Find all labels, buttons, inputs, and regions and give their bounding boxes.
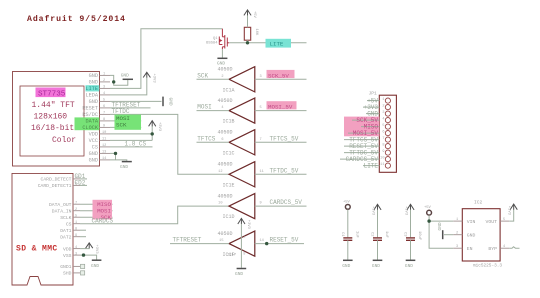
svg-text:VOUT: VOUT (485, 219, 497, 225)
svg-text:GND: GND (91, 263, 99, 269)
svg-text:10: 10 (102, 131, 106, 135)
highlight ST7735 (36, 88, 66, 98)
supply +3V3 arrow (VOUT) (510, 204, 517, 210)
wire pin3 LITE to Q1 (110, 29, 222, 89)
svg-text:CARDCS_5V: CARDCS_5V (270, 199, 303, 206)
IC2 pin names (467, 219, 497, 252)
svg-text:+5V: +5V (252, 11, 256, 19)
svg-text:5: 5 (260, 106, 262, 110)
svg-text:SHD: SHD (63, 271, 72, 277)
highlight SCK_5V (267, 70, 295, 78)
svg-text:DAT1: DAT1 (60, 228, 71, 234)
svg-text:2: 2 (75, 208, 77, 212)
supply +3V3 arrow (LEDA) (143, 72, 150, 77)
wire pin7 TFTDC to IC1E (110, 114, 229, 174)
capacitor C2 (373, 238, 382, 240)
wire SCLK / SCK (80, 216, 113, 218)
svg-text:1: 1 (382, 98, 384, 102)
svg-text:mic5225-3.3: mic5225-3.3 (473, 263, 502, 268)
svg-text:4050D: 4050D (218, 231, 233, 237)
svg-text:15: 15 (219, 239, 223, 243)
svg-text:CARD_DETECT: CARD_DETECT (41, 177, 72, 183)
supply +3V3 arrow (VCC pins) (149, 121, 156, 127)
JP1 pin numbers (380, 98, 384, 167)
svg-text:Q1: Q1 (213, 37, 218, 41)
junction pins 1-2 (112, 80, 115, 83)
svg-text:ST7735: ST7735 (38, 91, 66, 99)
svg-text:IC1E: IC1E (223, 182, 235, 188)
junction RESET_5V (265, 242, 268, 245)
wire VOUT to +3V3 (509, 210, 514, 222)
wire C1 to ground (347, 240, 349, 259)
svg-text:JP1: JP1 (369, 91, 378, 97)
TFT display module U1 outer body (13, 72, 100, 167)
svg-text:Adafruit 9/5/2014: Adafruit 9/5/2014 (27, 14, 126, 24)
svg-text:BSS84: BSS84 (206, 41, 218, 45)
wire DATA_IN / MOSI (80, 210, 113, 212)
wire R1 to LITE net (247, 40, 249, 43)
svg-text:5: 5 (75, 214, 77, 218)
svg-text:BYP: BYP (488, 246, 497, 252)
svg-text:5: 5 (503, 218, 505, 222)
svg-text:14: 14 (102, 157, 106, 161)
svg-text:LITE: LITE (364, 163, 379, 170)
display pin names (82, 73, 98, 164)
junction pins 10-11 (151, 132, 154, 135)
svg-text:11: 11 (102, 137, 106, 141)
svg-text:LITE: LITE (270, 41, 284, 48)
svg-text:SCK: SCK (197, 72, 208, 79)
svg-text:3: 3 (382, 111, 384, 115)
svg-text:GND: GND (89, 99, 98, 105)
wire TFTCS input stub (197, 141, 230, 143)
svg-text:RESET_5V: RESET_5V (270, 237, 299, 244)
svg-text:VSS: VSS (63, 253, 72, 259)
highlight DATA/CLOCK pins (75, 117, 100, 130)
op-amp buffer IC1B (229, 98, 255, 123)
SD pin numbers (75, 176, 79, 256)
svg-text:IC1P: IC1P (227, 254, 237, 258)
highlight MISO/MOSI/SCK (93, 200, 113, 220)
svg-text:DAT2: DAT2 (60, 235, 71, 241)
wire +3V3 to C3 (410, 210, 412, 238)
supply +3V3 arrow (C3) (407, 204, 414, 210)
svg-text:GND: GND (372, 263, 380, 269)
svg-text:2: 2 (382, 104, 384, 108)
supply +3V3 arrow (IC1 VCC) (238, 218, 245, 224)
svg-text:10K: 10K (254, 29, 258, 37)
wire VDD to +3V3 (80, 247, 89, 250)
svg-text:MOSI: MOSI (197, 104, 211, 111)
svg-text:5: 5 (382, 124, 384, 128)
svg-text:10: 10 (218, 202, 222, 206)
svg-text:13: 13 (102, 150, 106, 154)
svg-text:CS: CS (66, 222, 72, 228)
svg-text:RESET: RESET (82, 106, 98, 112)
svg-text:4: 4 (103, 92, 105, 96)
svg-text:10: 10 (380, 156, 384, 160)
svg-text:3: 3 (260, 75, 262, 79)
svg-text:+3V3: +3V3 (246, 220, 250, 230)
ground C3 (405, 260, 415, 269)
wire DATA_OUT / MISO (80, 203, 113, 205)
svg-text:LITE: LITE (86, 86, 98, 92)
svg-text:MOSI_5V: MOSI_5V (268, 104, 293, 111)
svg-text:6: 6 (103, 105, 105, 109)
wire IC1F output (255, 243, 304, 245)
svg-text:+3V3: +3V3 (152, 74, 156, 84)
svg-text:C1: C1 (340, 232, 344, 237)
transistor Q1 (219, 29, 229, 50)
svg-text:GND: GND (89, 80, 98, 86)
svg-text:1: 1 (243, 236, 245, 240)
wire CD1 stub (80, 178, 87, 180)
svg-text:IC1D: IC1D (223, 214, 235, 220)
capacitor C3 (406, 238, 415, 240)
svg-text:12: 12 (102, 144, 106, 148)
op-amp buffer IC1A (229, 67, 255, 92)
op-amp buffer IC1D (229, 194, 255, 219)
wire R1 to +5V (247, 15, 249, 27)
IC2 pin numbers (456, 218, 505, 249)
svg-text:9: 9 (260, 202, 262, 206)
wire LITE net (229, 42, 306, 44)
SD/MMC socket body (12, 173, 73, 285)
svg-text:GND: GND (168, 98, 174, 106)
svg-text:9: 9 (103, 124, 105, 128)
ground sideways pin5 (163, 97, 174, 107)
highlight LITE net label (266, 39, 292, 48)
ground C2 (372, 260, 382, 269)
wire pin4 LEDA to +3V3 (110, 77, 147, 95)
junction R1/LITE (246, 41, 249, 44)
wire pin6 TFTRESET (110, 107, 151, 109)
ground under Q1 (217, 49, 227, 66)
svg-text:IC1C: IC1C (223, 150, 235, 156)
svg-text:TFTDC_5V: TFTDC_5V (270, 167, 299, 174)
highlight JP1 SPI rows (344, 117, 379, 137)
svg-text:4050D: 4050D (218, 67, 233, 73)
svg-text:128x160: 128x160 (34, 113, 68, 122)
supply +5V circle (C1) (345, 205, 350, 210)
highlight MOSI/SCK labels (115, 115, 142, 130)
wire C3 to ground (410, 240, 412, 259)
svg-text:VIN: VIN (467, 219, 476, 225)
ground IC1 (235, 269, 246, 277)
ground display bottom (120, 162, 132, 170)
svg-text:DATA_OUT: DATA_OUT (49, 202, 72, 208)
svg-text:1.8_CS: 1.8_CS (125, 141, 147, 148)
svg-text:GND: GND (89, 151, 98, 157)
svg-text:GND: GND (467, 233, 476, 239)
ground display top (121, 72, 133, 79)
svg-text:GND: GND (121, 72, 129, 78)
svg-text:+3V3: +3V3 (94, 245, 98, 255)
connector JP1 body (379, 95, 396, 172)
svg-text:GND: GND (342, 263, 350, 269)
svg-text:4050D: 4050D (218, 193, 233, 199)
display pin numbers (102, 72, 106, 160)
svg-text:14: 14 (260, 239, 264, 243)
svg-text:SCK: SCK (116, 121, 127, 128)
svg-text:4: 4 (75, 246, 77, 250)
svg-text:+5V: +5V (424, 206, 432, 210)
svg-text:4050D: 4050D (218, 98, 233, 104)
svg-text:2: 2 (221, 75, 223, 79)
svg-text:8: 8 (382, 143, 384, 147)
junction +5V branch (427, 219, 430, 222)
svg-text:9: 9 (75, 234, 77, 238)
svg-text:6: 6 (382, 130, 384, 134)
svg-text:GND: GND (405, 263, 413, 269)
svg-text:IC2: IC2 (474, 200, 483, 206)
svg-text:TFTCS_5V: TFTCS_5V (270, 135, 299, 142)
svg-text:CLOCK: CLOCK (82, 125, 98, 131)
svg-text:3: 3 (456, 245, 458, 249)
wire +5V to VIN and EN (429, 215, 453, 248)
wire VSS to ground (80, 255, 97, 260)
svg-text:GND1: GND1 (60, 264, 71, 270)
svg-text:8: 8 (103, 118, 105, 122)
JP1 pin circles (385, 98, 390, 168)
shield pin pads (81, 264, 85, 268)
svg-text:8: 8 (75, 227, 77, 231)
JP1 net labels (346, 98, 379, 170)
svg-text:1uF: 1uF (355, 231, 359, 239)
svg-text:1: 1 (103, 72, 105, 76)
wire SCK input stub (197, 78, 230, 80)
svg-text:TFTCS: TFTCS (197, 135, 215, 142)
svg-text:IC1A: IC1A (223, 87, 235, 93)
highlight LITE pin (86, 85, 100, 91)
junction VSS (82, 253, 85, 256)
svg-text:IC1B: IC1B (223, 119, 235, 125)
TFT display screen inner box (20, 86, 84, 156)
op-amp buffer IC1E (229, 162, 255, 187)
svg-text:C2: C2 (370, 232, 374, 237)
svg-text:11: 11 (380, 163, 384, 167)
svg-text:2: 2 (103, 79, 105, 83)
svg-text:10uF: 10uF (417, 231, 421, 241)
svg-text:SCLK: SCLK (60, 215, 71, 221)
svg-text:9: 9 (382, 150, 384, 154)
wire IC1D output (255, 205, 307, 207)
ground SD card (91, 260, 101, 269)
svg-text:4: 4 (503, 245, 505, 249)
junction pins 13-14 (114, 152, 117, 155)
supply +5V arrow (244, 10, 251, 16)
svg-text:C3: C3 (403, 232, 407, 237)
svg-text:EN: EN (467, 246, 473, 252)
IC2 pin stubs (453, 221, 509, 248)
supply +5V circle (IC2) (427, 210, 432, 215)
svg-text:CARD_DETECT1: CARD_DETECT1 (38, 183, 72, 189)
wire +5V to C1 (347, 210, 349, 238)
wire pins 1+2 to ground (110, 75, 128, 85)
svg-text:GND: GND (89, 73, 98, 79)
wire pin8 MOSI stub (110, 120, 141, 122)
svg-text:5: 5 (103, 98, 105, 102)
svg-text:4050D: 4050D (218, 130, 233, 136)
svg-text:4050D: 4050D (218, 162, 233, 168)
svg-text:RS/DC: RS/DC (82, 112, 98, 118)
supply +3V3 arrow (C2) (374, 204, 381, 210)
svg-text:Color: Color (52, 136, 76, 145)
wire +3V3 to C2 (377, 210, 379, 238)
svg-text:3: 3 (75, 252, 77, 256)
highlight MOSI_5V (267, 101, 297, 109)
svg-text:CD2: CD2 (75, 179, 86, 186)
svg-text:DATA: DATA (86, 119, 99, 125)
op-amp buffer IC1C (229, 130, 255, 155)
voltage regulator IC2 body (462, 209, 500, 261)
svg-text:+3V3: +3V3 (404, 206, 408, 216)
svg-text:+3V3: +3V3 (371, 206, 375, 216)
svg-text:LEDA: LEDA (86, 93, 99, 99)
svg-text:GND: GND (437, 222, 443, 230)
svg-text:3: 3 (103, 85, 105, 89)
wire DAT1 stub (80, 229, 86, 231)
wire pin9 SCK stub (110, 126, 141, 128)
svg-text:1uF: 1uF (384, 231, 388, 239)
op-amp buffer IC1F (229, 231, 255, 256)
svg-text:DATA_IN: DATA_IN (52, 209, 72, 215)
svg-text:CS: CS (92, 145, 98, 151)
display pin stubs 1-14 (100, 75, 111, 159)
svg-text:1: 1 (75, 221, 77, 225)
svg-text:SCK_5V: SCK_5V (268, 72, 289, 79)
svg-text:VDD: VDD (89, 132, 98, 138)
svg-text:7: 7 (382, 137, 384, 141)
svg-text:GND: GND (120, 164, 128, 170)
svg-text:SD & MMC: SD & MMC (16, 245, 58, 254)
svg-text:7: 7 (75, 201, 77, 205)
SD pin names (38, 177, 72, 277)
wire C2 to ground (377, 240, 379, 259)
wire DAT2 stub (80, 236, 86, 238)
svg-text:1.44" TFT: 1.44" TFT (32, 101, 75, 110)
svg-text:TFTRESET: TFTRESET (173, 237, 202, 244)
wire IC1 power pins (240, 224, 242, 268)
svg-text:6: 6 (221, 138, 223, 142)
svg-text:7: 7 (260, 138, 262, 142)
svg-text:+5V: +5V (343, 200, 351, 204)
svg-text:GND: GND (217, 60, 225, 66)
svg-text:16/18-bit: 16/18-bit (31, 124, 74, 133)
capacitor C1 (343, 238, 352, 240)
svg-text:GND: GND (235, 271, 243, 277)
svg-text:VCC: VCC (89, 138, 98, 144)
wire BYP stub (509, 247, 519, 248)
wire IC1A output (255, 78, 307, 80)
svg-text:4: 4 (221, 106, 223, 110)
wire pin12 1.8_CS stub (110, 146, 153, 148)
wire IC1E output (255, 173, 307, 175)
svg-text:11: 11 (260, 170, 264, 174)
wire IC1C output (255, 141, 307, 143)
wire MOSI input stub (197, 110, 230, 112)
svg-text:1: 1 (456, 218, 458, 222)
svg-text:CARDCS: CARDCS (92, 218, 114, 225)
svg-text:8: 8 (243, 253, 245, 257)
svg-text:GND: GND (89, 158, 98, 164)
wire CD2 stub (80, 184, 87, 186)
JP1 wire stubs (340, 101, 379, 166)
wires pins 13+14 to ground (110, 153, 116, 160)
svg-text:VDD: VDD (63, 246, 72, 252)
svg-text:7: 7 (103, 111, 105, 115)
svg-text:+3V3: +3V3 (506, 206, 510, 216)
ground sideways IC2 (437, 222, 453, 239)
svg-text:4: 4 (382, 117, 384, 121)
svg-text:12: 12 (218, 170, 222, 174)
SD pin stubs (73, 179, 80, 273)
resistor R1 (244, 27, 250, 40)
svg-text:+3V3: +3V3 (157, 122, 161, 132)
ground C1 (342, 260, 352, 269)
wires pins 10+11 to +3V3 (110, 126, 152, 134)
wire CS to IC1D (80, 206, 229, 224)
svg-text:2: 2 (456, 232, 458, 236)
wire IC1B output (255, 110, 307, 112)
wire pin5 GND (110, 100, 162, 102)
supply +3V3 arrow (SD VDD) (86, 243, 93, 248)
wire TFTRESET input stub (170, 243, 229, 245)
